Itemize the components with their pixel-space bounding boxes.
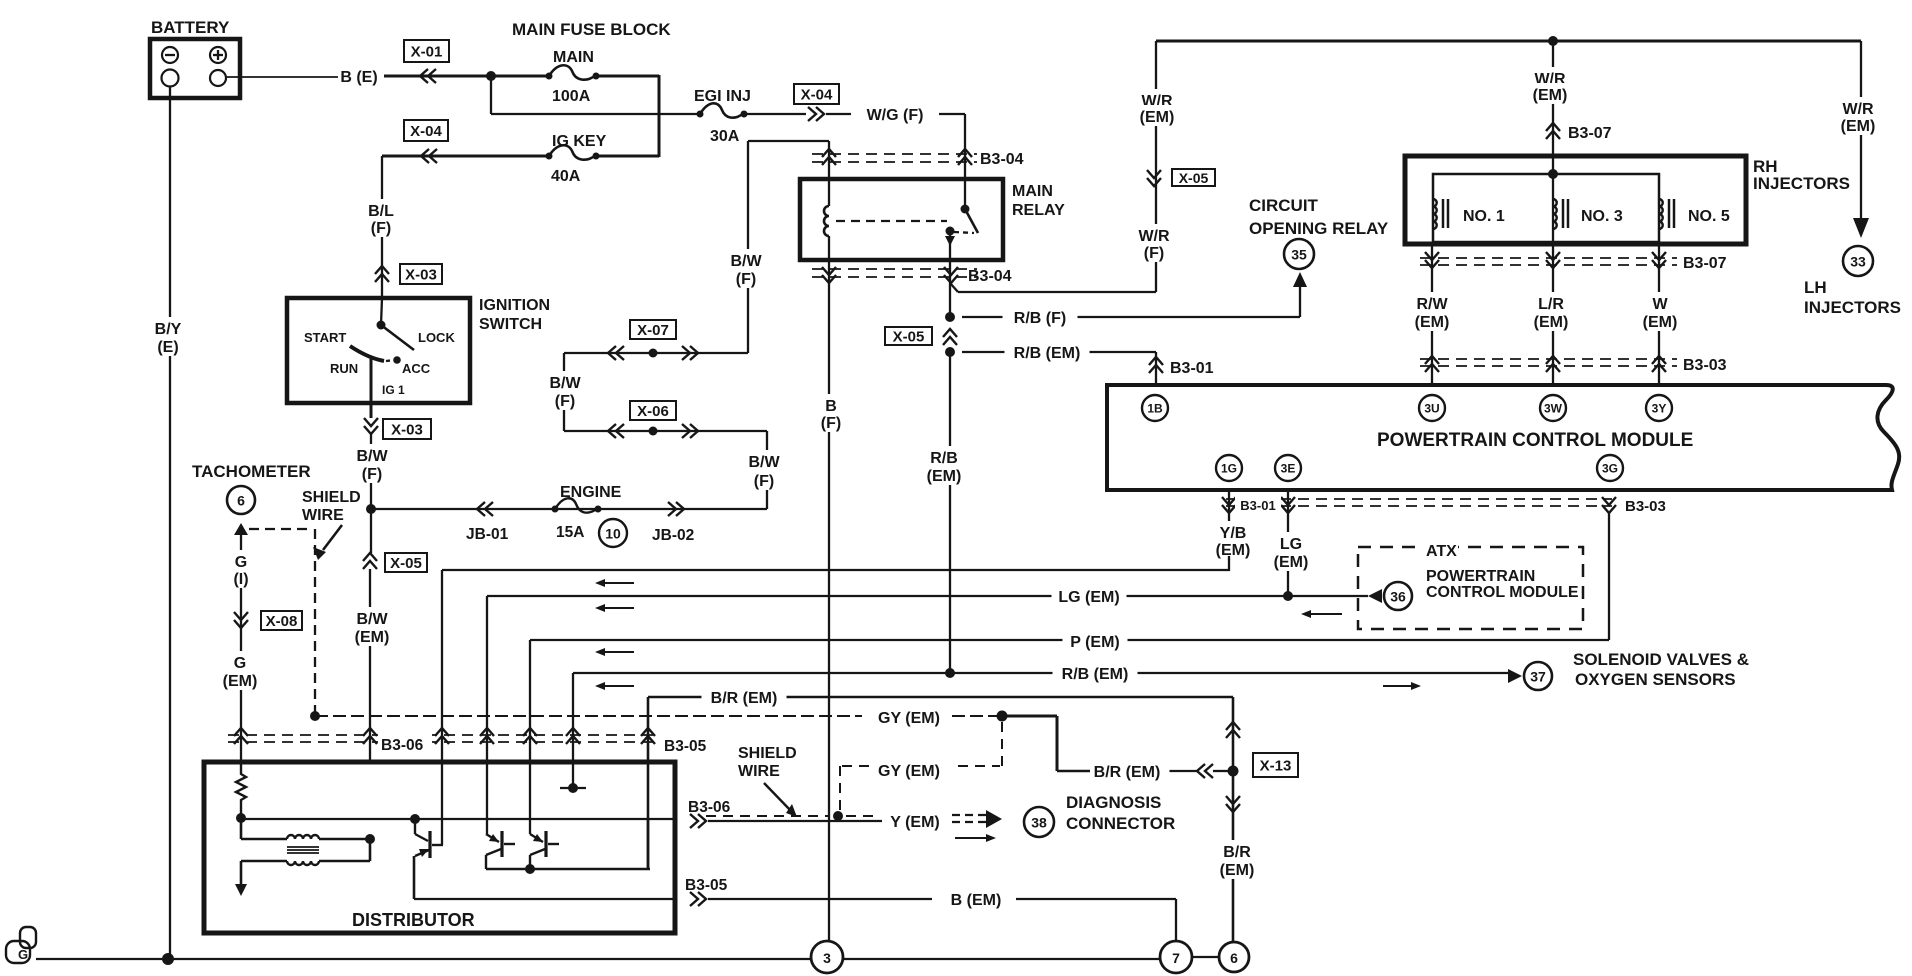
svg-text:INJECTORS: INJECTORS	[1753, 174, 1850, 193]
svg-text:(E): (E)	[157, 339, 178, 356]
svg-text:30A: 30A	[710, 128, 740, 145]
svg-text:POWERTRAIN CONTROL MODULE: POWERTRAIN CONTROL MODULE	[1377, 430, 1693, 451]
svg-text:15A: 15A	[556, 524, 584, 541]
svg-text:(EM): (EM)	[927, 468, 962, 485]
svg-text:X-05: X-05	[893, 329, 925, 346]
svg-text:(F): (F)	[736, 271, 756, 288]
svg-text:JB-01: JB-01	[466, 526, 509, 543]
svg-text:3Y: 3Y	[1652, 402, 1667, 416]
svg-text:IGNITION: IGNITION	[479, 297, 550, 314]
svg-text:SHIELD: SHIELD	[302, 489, 361, 506]
svg-text:X-05: X-05	[1179, 170, 1209, 186]
svg-text:SHIELD: SHIELD	[738, 745, 797, 762]
svg-text:3: 3	[823, 950, 831, 966]
svg-text:DIAGNOSIS: DIAGNOSIS	[1066, 793, 1161, 812]
svg-text:NO. 3: NO. 3	[1581, 208, 1623, 225]
svg-text:(F): (F)	[362, 466, 382, 483]
svg-text:X-01: X-01	[411, 44, 443, 61]
svg-text:(F): (F)	[821, 415, 841, 432]
svg-text:CONNECTOR: CONNECTOR	[1066, 814, 1175, 833]
svg-text:B3-03: B3-03	[1683, 357, 1727, 374]
svg-text:38: 38	[1031, 815, 1047, 831]
svg-text:10: 10	[605, 526, 621, 542]
svg-text:(EM): (EM)	[1841, 118, 1876, 135]
svg-text:(EM): (EM)	[1140, 109, 1175, 126]
svg-text:(F): (F)	[555, 393, 575, 410]
svg-text:100A: 100A	[552, 88, 591, 105]
svg-text:6: 6	[1230, 950, 1238, 966]
svg-text:6: 6	[237, 493, 245, 509]
svg-text:X-08: X-08	[266, 613, 298, 630]
svg-text:X-06: X-06	[637, 403, 669, 420]
svg-text:P (EM): P (EM)	[1070, 634, 1119, 651]
svg-text:LOCK: LOCK	[418, 330, 455, 345]
svg-text:GY (EM): GY (EM)	[878, 763, 940, 780]
svg-text:B3-06: B3-06	[381, 737, 424, 754]
svg-text:B3-01: B3-01	[1240, 498, 1275, 513]
svg-text:B3-07: B3-07	[1568, 125, 1612, 142]
svg-text:EGI INJ: EGI INJ	[694, 88, 751, 105]
svg-text:RELAY: RELAY	[1012, 202, 1065, 219]
svg-text:B3-07: B3-07	[1683, 255, 1727, 272]
svg-text:B3-05: B3-05	[664, 738, 707, 755]
svg-text:DISTRIBUTOR: DISTRIBUTOR	[352, 910, 475, 930]
svg-text:B/R (EM): B/R (EM)	[1094, 764, 1161, 781]
svg-text:3E: 3E	[1281, 462, 1296, 476]
svg-text:BATTERY: BATTERY	[151, 18, 230, 37]
svg-text:(EM): (EM)	[1533, 87, 1568, 104]
svg-text:CONTROL MODULE: CONTROL MODULE	[1426, 584, 1579, 601]
svg-text:1G: 1G	[1221, 462, 1237, 476]
svg-text:X-03: X-03	[391, 422, 423, 439]
svg-text:X-03: X-03	[405, 267, 437, 284]
svg-text:33: 33	[1850, 254, 1866, 270]
svg-text:(EM): (EM)	[1534, 314, 1569, 331]
svg-text:35: 35	[1291, 247, 1307, 263]
svg-text:B (EM): B (EM)	[951, 892, 1002, 909]
svg-text:B3-04: B3-04	[980, 151, 1024, 168]
svg-text:IG 1: IG 1	[382, 383, 405, 397]
svg-text:W/G (F): W/G (F)	[867, 107, 924, 124]
svg-text:OPENING RELAY: OPENING RELAY	[1249, 219, 1389, 238]
svg-text:B (E): B (E)	[340, 69, 377, 86]
svg-text:B3-01: B3-01	[1170, 360, 1214, 377]
svg-text:JB-02: JB-02	[652, 527, 694, 544]
svg-text:LG (EM): LG (EM)	[1058, 589, 1119, 606]
svg-text:(EM): (EM)	[1274, 554, 1309, 571]
svg-text:36: 36	[1390, 589, 1406, 605]
svg-text:(EM): (EM)	[1216, 542, 1251, 559]
svg-text:(EM): (EM)	[355, 629, 390, 646]
svg-text:X-07: X-07	[637, 322, 669, 339]
svg-text:OXYGEN SENSORS: OXYGEN SENSORS	[1575, 670, 1736, 689]
svg-text:LH: LH	[1804, 278, 1827, 297]
svg-text:POWERTRAIN: POWERTRAIN	[1426, 568, 1535, 585]
svg-text:NO. 1: NO. 1	[1463, 208, 1505, 225]
svg-text:INJECTORS: INJECTORS	[1804, 298, 1901, 317]
svg-text:(F): (F)	[754, 473, 774, 490]
svg-text:37: 37	[1530, 669, 1546, 685]
svg-text:B/R (EM): B/R (EM)	[711, 690, 778, 707]
svg-text:ACC: ACC	[402, 361, 431, 376]
svg-text:1B: 1B	[1147, 402, 1163, 416]
svg-text:3U: 3U	[1424, 402, 1439, 416]
svg-text:GY (EM): GY (EM)	[878, 710, 940, 727]
svg-text:40A: 40A	[551, 168, 581, 185]
svg-text:TACHOMETER: TACHOMETER	[192, 462, 311, 481]
svg-text:3W: 3W	[1544, 402, 1563, 416]
svg-text:(I): (I)	[233, 571, 248, 588]
svg-text:WIRE: WIRE	[302, 507, 344, 524]
svg-text:SOLENOID VALVES &: SOLENOID VALVES &	[1573, 650, 1749, 669]
svg-text:IG KEY: IG KEY	[552, 133, 607, 150]
svg-text:(F): (F)	[1144, 245, 1164, 262]
svg-text:X-13: X-13	[1260, 758, 1292, 775]
svg-text:B3-03: B3-03	[1625, 498, 1666, 515]
svg-text:G: G	[18, 947, 28, 962]
svg-text:NO. 5: NO. 5	[1688, 208, 1730, 225]
svg-text:MAIN: MAIN	[1012, 183, 1053, 200]
svg-text:(EM): (EM)	[1220, 862, 1255, 879]
svg-text:SWITCH: SWITCH	[479, 316, 542, 333]
svg-text:CIRCUIT: CIRCUIT	[1249, 196, 1319, 215]
svg-text:MAIN: MAIN	[553, 49, 594, 66]
svg-text:B3-04: B3-04	[968, 268, 1012, 285]
svg-text:(EM): (EM)	[1643, 314, 1678, 331]
svg-text:RUN: RUN	[330, 361, 358, 376]
svg-text:(EM): (EM)	[223, 673, 258, 690]
svg-text:B/W: B/W	[748, 454, 780, 471]
svg-text:7: 7	[1172, 950, 1180, 966]
svg-text:B3-05: B3-05	[685, 877, 728, 894]
svg-text:X-04: X-04	[801, 87, 833, 104]
svg-text:Y (EM): Y (EM)	[890, 814, 939, 831]
svg-text:X-04: X-04	[410, 123, 442, 140]
svg-text:R/B (EM): R/B (EM)	[1014, 345, 1081, 362]
svg-text:R/B (F): R/B (F)	[1014, 310, 1066, 327]
svg-text:X-05: X-05	[390, 555, 422, 572]
svg-text:(F): (F)	[371, 220, 391, 237]
svg-text:B3-06: B3-06	[688, 799, 731, 816]
svg-text:R/B (EM): R/B (EM)	[1062, 666, 1129, 683]
svg-text:WIRE: WIRE	[738, 763, 780, 780]
svg-text:MAIN FUSE BLOCK: MAIN FUSE BLOCK	[512, 20, 671, 39]
svg-text:3G: 3G	[1602, 462, 1618, 476]
svg-text:START: START	[304, 330, 346, 345]
svg-text:ATX: ATX	[1426, 543, 1457, 560]
svg-text:(EM): (EM)	[1415, 314, 1450, 331]
